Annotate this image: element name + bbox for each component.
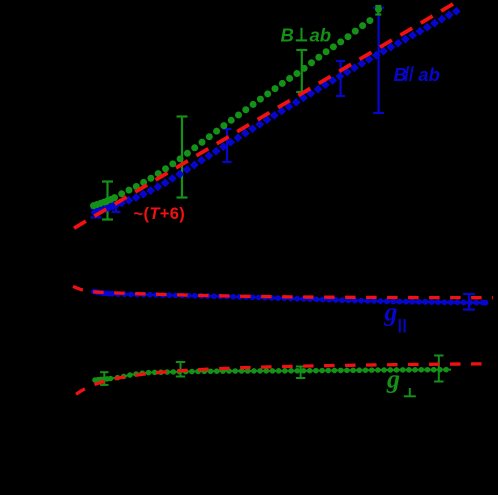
svg-text:g: g <box>384 298 398 327</box>
svg-text:g: g <box>386 365 400 394</box>
error bar g_perp 2 <box>176 362 185 377</box>
label B||ab (blue) <box>394 64 440 85</box>
label B_perp_ab (green) <box>281 24 332 45</box>
error bar B_perp_ab 2 <box>177 117 188 198</box>
data series B_perp_ab (green circles) <box>90 6 382 209</box>
red dashed fit line for g_parallel <box>73 286 493 297</box>
data series g_perp (green markers) <box>92 367 449 383</box>
error bar g_parallel right <box>463 294 475 310</box>
error bar g_perp 4 <box>434 356 443 382</box>
svg-text:B: B <box>394 64 407 85</box>
error bar B||ab upper <box>336 61 345 96</box>
label g_perp (green) <box>386 365 416 397</box>
red dashed fit line ~(T+6), top panel <box>74 4 453 228</box>
svg-text:ab: ab <box>310 24 332 45</box>
g_parallel blue connecting line <box>94 292 482 303</box>
svg-text:ab: ab <box>418 64 440 85</box>
error bar B_perp_ab 1 <box>102 182 113 220</box>
svg-text:~(T+6): ~(T+6) <box>134 205 186 223</box>
error bar B||ab long <box>373 8 384 113</box>
red dashed fit line for g_perp <box>76 364 487 395</box>
data series B||ab (blue diamonds) <box>91 7 461 217</box>
label g_parallel (blue) <box>384 298 405 333</box>
error bar B_perp_ab 3 <box>296 50 307 92</box>
error bar g_perp 1 <box>100 372 108 385</box>
data series g_parallel (blue markers) <box>91 289 488 306</box>
error bar B||ab point 2 <box>112 203 121 212</box>
error bar B||ab point 1 <box>91 209 102 218</box>
green connecting line g_perp <box>95 370 451 380</box>
error bar g_perp 3 <box>296 367 305 379</box>
svg-text:B: B <box>281 24 294 45</box>
error bar B_perp_ab 4 <box>375 6 381 15</box>
error bar B||ab mid <box>223 129 232 162</box>
